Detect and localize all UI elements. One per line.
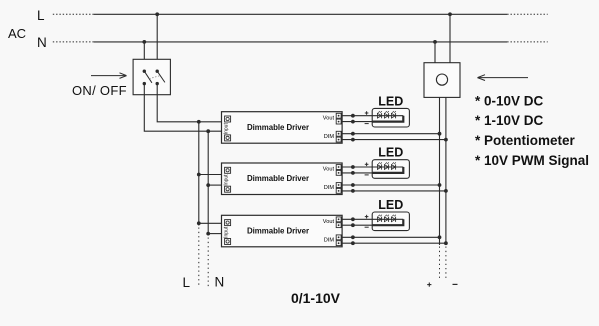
svg-text:Vout: Vout	[323, 219, 335, 225]
wire N bus to driver U2 input	[208, 184, 221, 186]
switch S1 pole 1 (N)	[143, 70, 146, 73]
node DIM- U3 bus tap	[444, 241, 448, 245]
wire DIM- U2 to bus	[342, 190, 446, 192]
node DIM- U3 stub	[351, 241, 355, 245]
svg-text:Input: Input	[224, 226, 230, 238]
LED D3.1	[377, 217, 381, 222]
svg-text:* 10V PWM Signal: * 10V PWM Signal	[475, 153, 589, 168]
wire N line	[94, 41, 508, 43]
svg-text:* 1-10V DC: * 1-10V DC	[475, 113, 544, 128]
LED string return (thick) D3	[372, 219, 403, 225]
driver U1 DIM terminals	[336, 131, 341, 136]
wire L bus to driver U3 input	[199, 222, 222, 224]
driver U3 input terminal 2	[225, 239, 231, 245]
wire Vout- U2 return	[342, 172, 372, 174]
LED module D1 box	[372, 108, 409, 127]
node DIM+ U1 bus tap	[438, 132, 442, 136]
driver U3 DIM terminals	[336, 235, 341, 240]
svg-text:DIM: DIM	[324, 185, 335, 191]
node Vout- U2	[351, 171, 355, 175]
wire DIM+ U3 to bus	[342, 236, 439, 238]
wire DIM- U3 to bus	[342, 242, 446, 244]
svg-text:LED: LED	[378, 146, 403, 160]
node Vout- U1	[351, 120, 355, 124]
svg-text:DIM: DIM	[324, 134, 335, 140]
wire Vout- U1 return	[342, 121, 372, 123]
wire L to switch S1	[156, 14, 158, 71]
driver U3 input terminal 1	[225, 220, 231, 226]
driver U1 Vout terminals	[336, 113, 341, 118]
wire L line dashed tail	[507, 13, 548, 15]
node DIM- U2 bus tap	[444, 189, 448, 193]
dimmer / potentiometer box	[424, 63, 460, 98]
svg-text:L: L	[183, 275, 191, 290]
wire L bus to driver U2 input	[199, 174, 222, 176]
svg-text:Vout: Vout	[323, 115, 335, 121]
wire N to switch S1	[143, 42, 145, 71]
wire N bus	[207, 131, 209, 235]
switch S1 pole 2 (L)	[156, 70, 159, 73]
svg-text:N: N	[215, 275, 225, 290]
node DIM+ U3 bus tap	[438, 235, 442, 239]
node Vout+ U2	[351, 165, 355, 169]
svg-text:Dimmable Driver: Dimmable Driver	[247, 123, 309, 132]
svg-text:LED: LED	[378, 94, 403, 108]
wire Vout- U3 return	[342, 224, 372, 226]
svg-text:* Potentiometer: * Potentiometer	[475, 133, 576, 148]
driver U2 DIM terminals	[336, 183, 341, 188]
svg-text:Input: Input	[224, 174, 230, 186]
svg-text:N: N	[37, 35, 47, 50]
switch S1 box	[133, 59, 170, 94]
wire DIM+ bus	[439, 97, 441, 245]
LED D3.3	[391, 217, 395, 222]
wire N bus to driver U3 input	[208, 233, 221, 235]
svg-text:Input: Input	[224, 123, 230, 135]
node L bus tap at U3	[197, 221, 201, 225]
driver U1 box	[222, 112, 343, 144]
wire DIM- U1 to bus	[342, 139, 446, 141]
switch S1 coupling link	[149, 76, 160, 79]
wire DIM+ U2 to bus	[342, 184, 439, 186]
node L tap to switch	[155, 12, 159, 16]
node DIM- U1 stub	[351, 138, 355, 142]
wire N to dimmer	[434, 42, 436, 63]
wire DIM- bus	[445, 97, 447, 245]
node Vout- U3	[351, 223, 355, 227]
svg-text:AC: AC	[8, 26, 26, 41]
node DIM- U2 stub	[351, 189, 355, 193]
arrow to switch	[91, 75, 127, 77]
LED D2.2	[384, 165, 388, 170]
node L tap to dimmer	[448, 12, 452, 16]
node N tap to dimmer	[433, 40, 437, 44]
label + (LED D2)	[365, 163, 369, 165]
LED D1.2	[384, 113, 388, 118]
wire L to dimmer	[449, 14, 451, 62]
wire Vout+ U3 to LED string	[342, 218, 403, 220]
wire N bus dashed end	[207, 238, 209, 288]
LED D3.2	[384, 217, 388, 222]
label - (LED D1)	[365, 123, 369, 125]
wire L line	[94, 13, 508, 15]
wire N line dashed lead-in	[53, 41, 94, 43]
svg-text:DIM: DIM	[324, 238, 335, 244]
svg-text:LED: LED	[378, 198, 403, 212]
node N bus tap at U1	[206, 129, 210, 133]
wire N line dashed tail	[507, 41, 548, 43]
arrow to dimmer	[478, 77, 529, 79]
svg-text:Dimmable Driver: Dimmable Driver	[247, 174, 309, 183]
node DIM+ U3 stub	[351, 235, 355, 239]
wire L line dashed lead-in	[53, 13, 94, 15]
node N bus tap at U2	[206, 183, 210, 187]
svg-text:0/1-10V: 0/1-10V	[291, 290, 341, 306]
wire switch to driver U1 input (L)	[157, 84, 221, 122]
LED string return (thick) D1	[372, 116, 403, 122]
node L bus tap at U1	[197, 120, 201, 124]
node DIM- U1 bus tap	[444, 138, 448, 142]
driver U1 input terminal 1	[225, 116, 231, 122]
wire DIM+ U1 to bus	[342, 133, 439, 135]
LED D1.1	[377, 113, 381, 118]
driver U3 box	[222, 215, 343, 247]
LED string return (thick) D2	[372, 167, 403, 173]
wire DIM- bus dashed end	[445, 247, 447, 279]
LED module D2 box	[372, 160, 409, 179]
wire DIM+ bus dashed end	[439, 247, 441, 279]
svg-text:Vout: Vout	[323, 167, 335, 173]
svg-text:* 0-10V DC: * 0-10V DC	[475, 93, 544, 108]
driver U2 Vout terminals	[336, 165, 341, 170]
node Vout+ U1	[351, 114, 355, 118]
node DIM+ U1 stub	[351, 132, 355, 136]
wire L bus dashed end	[198, 228, 200, 288]
node N bus tap at U3	[206, 232, 210, 236]
wire Vout+ U1 to LED string	[342, 115, 403, 117]
wire L bus	[198, 122, 200, 226]
driver U2 input terminal 1	[225, 167, 231, 173]
node DIM+ U2 bus tap	[438, 183, 442, 187]
wire switch to driver U1 input (N)	[144, 84, 221, 132]
label + (LED D1)	[365, 112, 369, 114]
LED module D3 box	[372, 212, 409, 231]
dimmer knob	[436, 74, 447, 85]
LED D2.1	[377, 165, 381, 170]
wire Vout+ U2 to LED string	[342, 166, 403, 168]
node L bus tap at U2	[197, 173, 201, 177]
label + (LED D3)	[365, 216, 369, 218]
node Vout+ U3	[351, 217, 355, 221]
LED D2.3	[391, 165, 395, 170]
label - (LED D2)	[365, 174, 369, 176]
label + (dim bus)	[427, 284, 431, 286]
node DIM+ U2 stub	[351, 183, 355, 187]
svg-text:Dimmable Driver: Dimmable Driver	[247, 227, 309, 236]
driver U1 input terminal 2	[225, 135, 231, 141]
node N tap to switch	[142, 40, 146, 44]
svg-text:L: L	[37, 8, 45, 23]
LED D1.3	[391, 113, 395, 118]
label - (LED D3)	[365, 226, 369, 228]
svg-text:ON/ OFF: ON/ OFF	[72, 83, 127, 98]
driver U2 box	[222, 163, 343, 195]
driver U2 input terminal 2	[225, 186, 231, 192]
driver U3 Vout terminals	[336, 217, 341, 222]
label - (dim bus)	[453, 283, 458, 285]
